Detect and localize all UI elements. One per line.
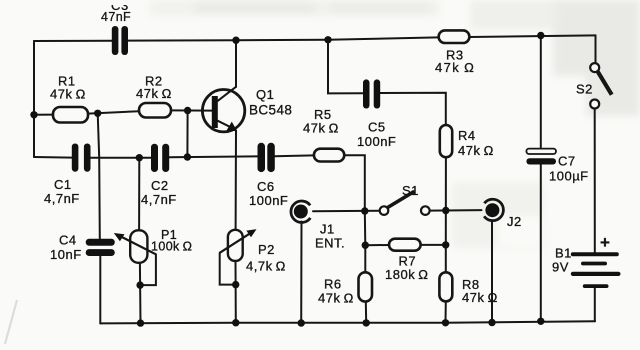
transistor Q1 [202, 90, 244, 132]
svg-text:S1: S1 [402, 183, 419, 198]
junction node R1 left [30, 111, 37, 118]
svg-text:10nF: 10nF [50, 247, 82, 262]
wire: R8 bottom lead [445, 301, 447, 322]
svg-text:B1: B1 [555, 246, 572, 261]
svg-text:C5: C5 [368, 120, 386, 135]
wire: P1 top lead [138, 158, 140, 231]
junction node ground C7 [537, 318, 544, 325]
switch S1 [380, 191, 430, 215]
svg-text:100k Ω: 100k Ω [151, 240, 192, 254]
capacitor C3 plates [112, 26, 128, 55]
wire: J2 ground stem [491, 220, 493, 322]
capacitor C4 plates [86, 239, 115, 256]
junction node R7 left [362, 242, 369, 249]
wire: R6 bottom lead [365, 302, 367, 323]
junction node ground R6 [363, 319, 370, 326]
svg-text:C6: C6 [257, 179, 275, 194]
svg-text:S2: S2 [576, 82, 593, 97]
wire: C5 to R4 top [380, 93, 446, 125]
wire: R1-R2 link [88, 111, 139, 113]
wire: C5 branch from top rail [328, 40, 363, 94]
svg-text:9V: 9V [552, 260, 569, 275]
wire: R7 right lead [421, 244, 446, 246]
svg-text:47k Ω: 47k Ω [136, 86, 172, 101]
junction node R1-R2/C4 [94, 110, 101, 117]
wire: C4 bottom lead [99, 256, 101, 323]
wire: R7 left lead [365, 244, 389, 246]
resistor R3 [439, 30, 470, 43]
svg-text:J2: J2 [507, 214, 522, 229]
wire: collector diagonal [218, 87, 236, 101]
svg-text:ENT.: ENT. [315, 236, 345, 251]
battery B1 [571, 252, 621, 288]
capacitor C7 electrolytic [526, 149, 556, 165]
junction node R4 on S1-J2 wire [442, 207, 449, 214]
wire: mid rail C1-C2 [91, 157, 152, 159]
svg-text:BC548: BC548 [249, 103, 292, 118]
svg-text:100µF: 100µF [549, 169, 589, 184]
svg-text:47k Ω: 47k Ω [303, 121, 339, 136]
junction node R5/R6 on J1 wire [361, 207, 368, 214]
svg-text:4,7nF: 4,7nF [141, 192, 177, 207]
junction node R7 right [442, 241, 449, 248]
resistor R8 [439, 272, 452, 301]
resistor R2 [139, 103, 171, 118]
wire: R4 bottom vertical [445, 157, 447, 272]
scan wash J2 area [452, 182, 544, 248]
junction node P1 wiper [136, 281, 143, 288]
svg-text:C4: C4 [59, 233, 77, 248]
wire: top rail segment C [469, 35, 595, 37]
svg-text:J1: J1 [320, 222, 335, 237]
wire: emitter diagonal [218, 121, 233, 129]
scan wash top-right [150, 0, 640, 116]
capacitor C2 plates [151, 144, 169, 172]
scan scratch bottom-left [5, 300, 17, 344]
junction node ground J2 [488, 319, 495, 326]
wire: R2 to base [171, 109, 212, 111]
wire: P2 wiper loop [220, 253, 236, 285]
wire: C7 top lead [540, 36, 542, 149]
potentiometer P1 [114, 230, 156, 262]
svg-text:100nF: 100nF [357, 134, 396, 149]
capacitor C6 plates [258, 143, 275, 172]
wire: S2 to battery plus [594, 109, 596, 253]
wire: C7 bottom lead [540, 165, 542, 322]
svg-text:4,7nF: 4,7nF [44, 191, 80, 206]
junction node R2-base [184, 107, 191, 114]
wire: right rail to S2 [595, 35, 597, 63]
svg-text:47k Ω: 47k Ω [462, 290, 498, 305]
junction node C7 top rail [537, 32, 544, 39]
wire: S1 to J2 [430, 209, 482, 212]
wire: battery minus to ground rail [594, 288, 596, 321]
wire: R5 right link down [344, 155, 365, 211]
svg-text:+: + [600, 233, 611, 252]
svg-text:R6: R6 [324, 277, 342, 292]
junction node P2 wiper [232, 281, 239, 288]
resistor R6 [359, 272, 373, 301]
wire: mid rail C2-C6 [169, 155, 257, 158]
svg-text:47k Ω: 47k Ω [318, 291, 354, 306]
capacitor C5 plates [363, 79, 380, 108]
svg-text:Q1: Q1 [256, 87, 274, 102]
wire: top rail segment B [128, 37, 439, 40]
junction node R2-link mid rail [184, 153, 191, 160]
junction node collector top rail [232, 37, 239, 44]
junction node P1 mid rail [136, 154, 143, 161]
wire: J1 ground stem [300, 222, 302, 324]
svg-text:47nF: 47nF [101, 10, 131, 24]
wire: R2 junction down-link [186, 111, 188, 158]
jack J1 [291, 201, 310, 222]
svg-text:100nF: 100nF [249, 193, 288, 208]
wire: R6 upper vertical [364, 211, 367, 272]
svg-text:C2: C2 [151, 178, 169, 193]
wire: R1-R2 junction to C4 [98, 113, 100, 239]
junction node ground P2 [232, 319, 239, 326]
junction node ground P1 [137, 319, 144, 326]
wire: J1 to S1 [313, 210, 380, 213]
wire: emitter vertical to P2 [235, 131, 237, 230]
resistor R1 [53, 107, 88, 123]
switch S2 [590, 63, 612, 108]
junction node ground R8 [442, 319, 449, 326]
jack J2 [484, 199, 503, 220]
capacitor C1 plates [72, 144, 91, 172]
svg-text:4,7k Ω: 4,7k Ω [246, 259, 286, 274]
wire: mid rail C6-R5 [275, 154, 314, 157]
wire: P1 wiper loop [140, 254, 156, 285]
svg-text:180k Ω: 180k Ω [385, 267, 429, 282]
svg-text:47k Ω: 47k Ω [458, 143, 494, 158]
svg-text:C1: C1 [54, 177, 72, 192]
wire: left vertical rail [33, 41, 35, 157]
svg-text:47k Ω: 47k Ω [435, 60, 475, 75]
wire: top rail segment A [34, 40, 112, 42]
wire: P1 bottom lead [139, 263, 142, 323]
wire: R1 left lead [34, 114, 53, 116]
wire: mid rail C1 left [34, 156, 72, 159]
svg-text:P2: P2 [258, 242, 275, 257]
svg-text:C7: C7 [558, 154, 576, 169]
label C3 (clipped) [103, 0, 137, 13]
svg-text:47k Ω: 47k Ω [50, 87, 86, 102]
svg-text:R4: R4 [458, 128, 476, 143]
junction node C5 top rail [324, 36, 331, 43]
wire: collector vertical [235, 40, 237, 87]
potentiometer P2 [220, 229, 257, 261]
wire: P2 bottom lead [235, 261, 237, 323]
resistor R5 [314, 149, 344, 162]
wire: bottom ground rail [100, 321, 595, 323]
resistor R7 [389, 239, 421, 251]
junction node ground J1 [298, 319, 305, 326]
resistor R4 [440, 125, 452, 157]
